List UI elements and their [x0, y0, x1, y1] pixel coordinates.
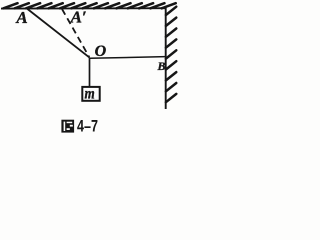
wall line: [165, 8, 167, 109]
ceiling line: [1, 7, 167, 9]
caption glyph 图: [61, 120, 74, 133]
ceiling hatching: [4, 3, 176, 8]
svg-text:O: O: [95, 43, 107, 60]
wall hatching: [166, 7, 176, 103]
svg-text:4–7: 4–7: [77, 118, 98, 136]
svg-text:B: B: [157, 59, 166, 73]
rope A to O (wire): [28, 9, 90, 58]
svg-text:A′: A′: [70, 8, 87, 27]
svg-text:m: m: [85, 85, 95, 102]
horizontal rope O to B (wire): [90, 57, 166, 59]
vertical rope O to mass (wire): [89, 58, 91, 87]
dashed rope A' to O (wire): [62, 9, 89, 57]
mass box m: [82, 87, 99, 101]
svg-text:A: A: [15, 8, 27, 27]
